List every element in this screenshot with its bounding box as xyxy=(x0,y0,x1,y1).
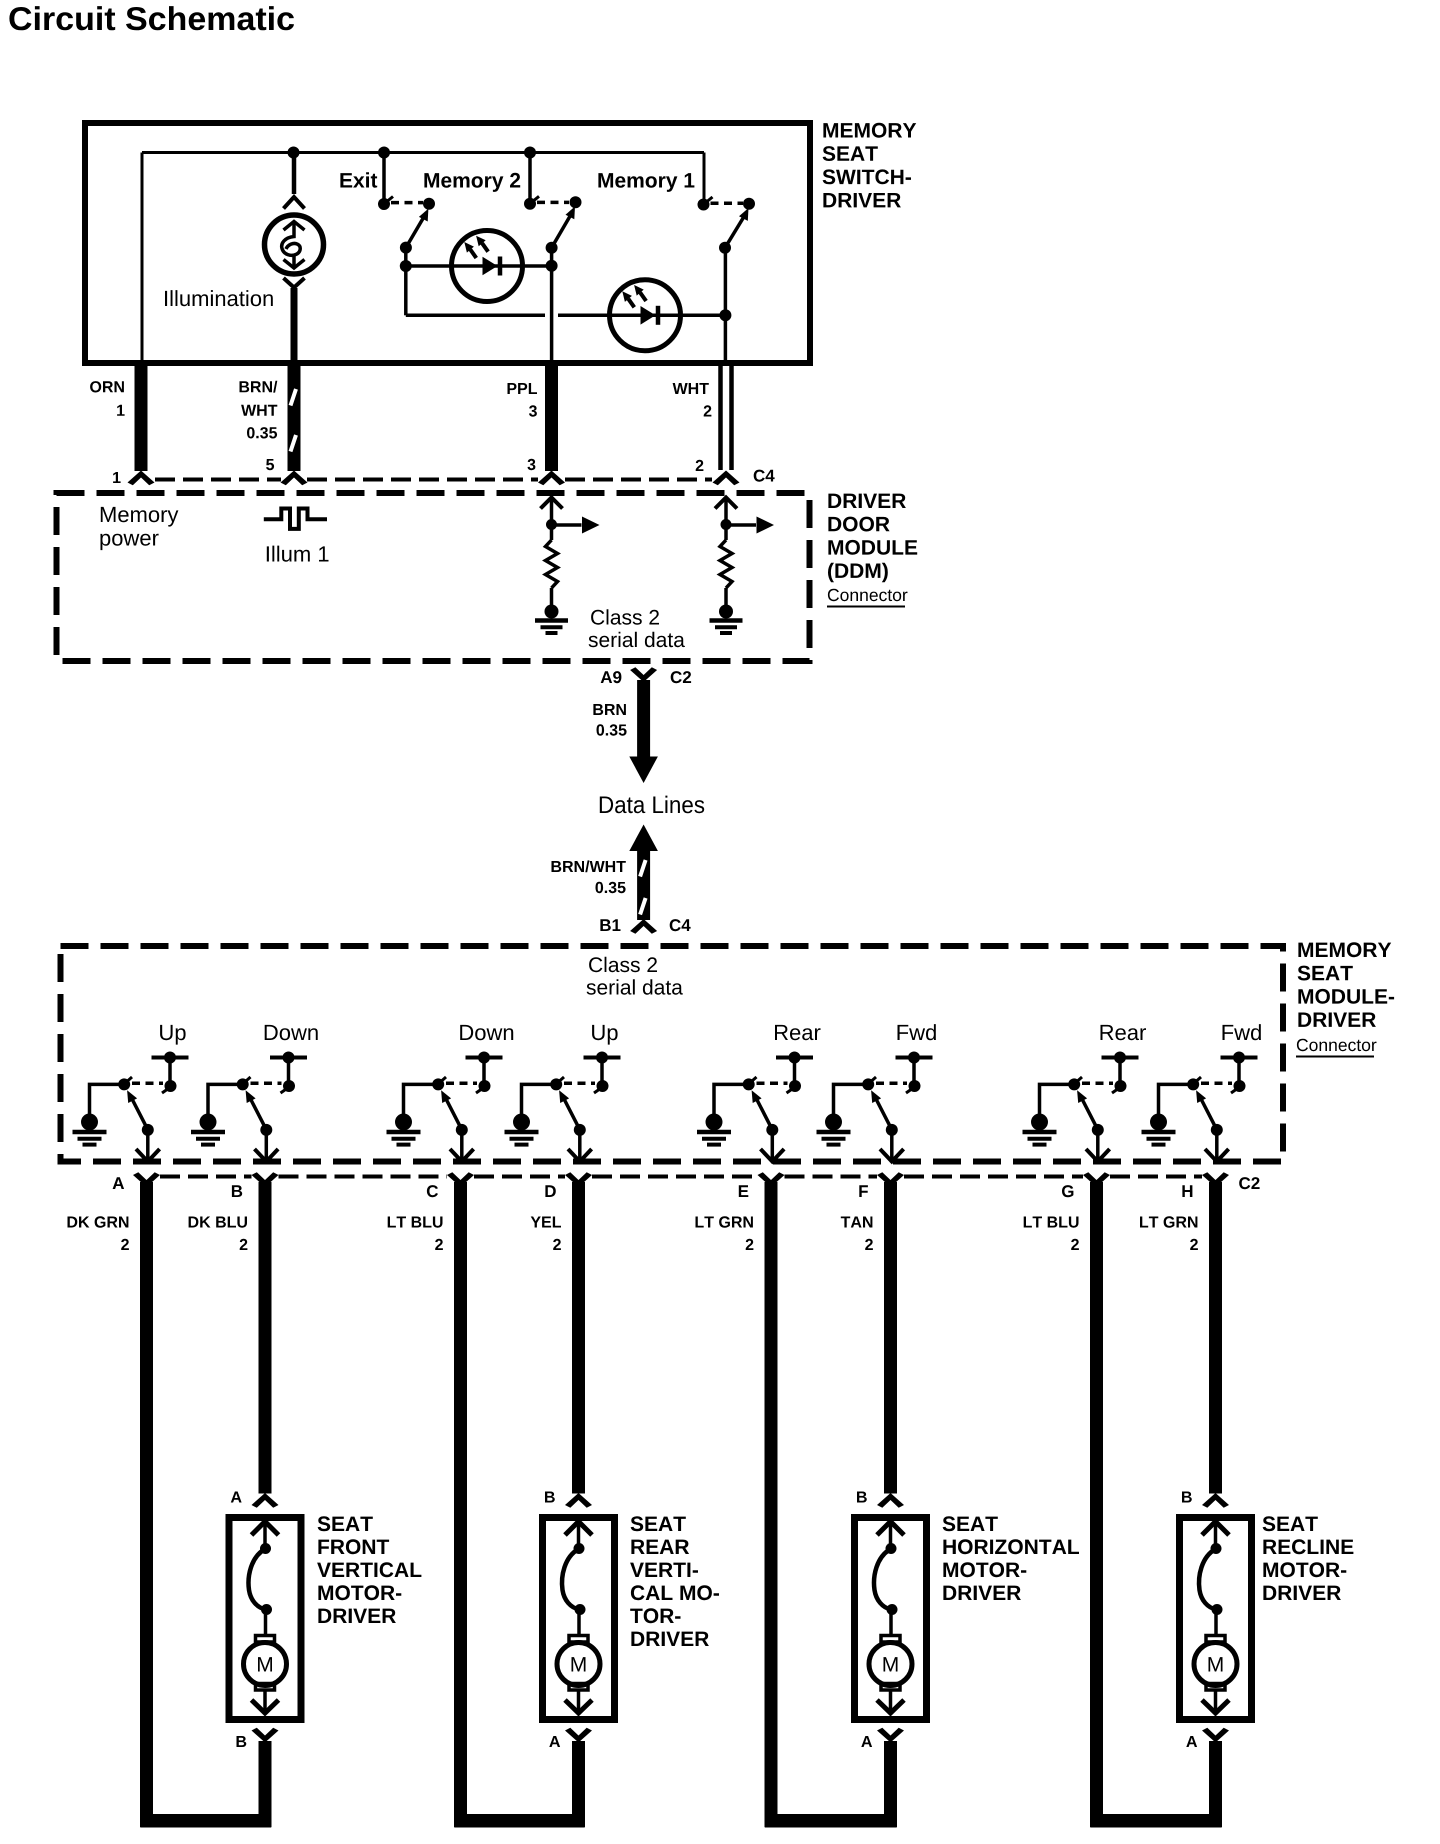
node Exit fixed contact xyxy=(423,198,435,210)
wire BRN 0.35 down xyxy=(637,680,650,757)
wire led2 row right xyxy=(558,314,725,318)
label Class 2 serial data (DDM) xyxy=(591,609,659,624)
label C2 xyxy=(671,671,691,683)
wire left vertical (pin1 feed) xyxy=(141,153,144,364)
label DK GRN 2 xyxy=(68,1216,129,1227)
connector B1/C4 chevron xyxy=(630,919,657,934)
label motor 3 bottom pin A xyxy=(861,1736,872,1747)
MSM switch Fwd (pin at x=890.5) xyxy=(817,1024,936,1161)
wire led1 junction down xyxy=(404,266,408,315)
pin 2 wire WHT (double line) xyxy=(718,364,723,470)
motor 1 top pin chevron xyxy=(252,1493,279,1508)
pin number 2 xyxy=(696,460,704,471)
label ORN 1 xyxy=(90,381,124,392)
motor M3 internals xyxy=(869,1522,912,1714)
wire MSM pin A loop to motor bottom xyxy=(140,1182,153,1827)
Memory2 blade xyxy=(552,211,573,248)
motor M4 internals xyxy=(1194,1522,1237,1714)
node Memory2 fixed contact xyxy=(570,196,582,208)
Illum 1 pulse symbol xyxy=(264,509,327,529)
label motor 2 top pin B xyxy=(545,1492,555,1503)
MSM switch Down (pin at x=265) xyxy=(191,1025,318,1162)
motor M3 box xyxy=(855,1518,927,1720)
label Memory 1 xyxy=(598,173,694,192)
node rail-exit junction xyxy=(378,147,390,159)
label Class 2 serial data (MSM) xyxy=(589,957,657,972)
lamp L1 Illumination circle xyxy=(265,215,324,274)
pin number 1 xyxy=(113,472,121,483)
title Circuit Schematic xyxy=(9,6,294,30)
connector row dashed line C2 xyxy=(160,1175,1202,1179)
LED D1 memory2 indicator xyxy=(452,231,523,302)
node Exit blade contact xyxy=(400,242,412,254)
node Memory1 blade contact xyxy=(719,242,731,254)
label C4 (MSM) xyxy=(670,919,691,931)
motor M2 internals xyxy=(557,1522,600,1714)
label LT GRN 2 xyxy=(696,1216,753,1227)
label LT BLU 2 xyxy=(1024,1217,1079,1228)
MSM switch Up (pin at x=146.5) xyxy=(73,1025,189,1162)
node rail-memory2 junction xyxy=(524,147,536,159)
motor 3 top pin chevron xyxy=(877,1493,904,1508)
switch Exit stem xyxy=(382,153,386,204)
wire memory1 contact down to pin2 xyxy=(724,248,728,363)
MSM switch Down (pin at x=460.5) xyxy=(387,1025,514,1162)
wire MSM pin D to motor top xyxy=(572,1182,585,1494)
label DK BLU 2 xyxy=(189,1217,247,1228)
wire top rail xyxy=(142,151,704,154)
wire memory2 contact down to pin3 xyxy=(550,248,554,363)
motor M1 box xyxy=(229,1518,301,1720)
label MEMORY SEAT SWITCH-DRIVER xyxy=(823,123,917,208)
lamp filament xyxy=(282,222,305,269)
label motor 2 bottom pin A xyxy=(549,1736,560,1747)
MSM pin C chevron xyxy=(447,1172,474,1187)
wire BRN/WHT 0.35 up arrow xyxy=(629,825,658,852)
pin 3 connector chevron xyxy=(538,471,565,486)
label Illumination xyxy=(165,290,273,306)
MSM switch Fwd (pin at x=1215.5) xyxy=(1142,1024,1261,1161)
label PPL 3 xyxy=(508,383,538,394)
MSM switch Up (pin at x=578.5) xyxy=(505,1025,621,1162)
wire led1 row xyxy=(406,264,552,268)
Memory1 mechanical link xyxy=(711,201,744,205)
node led2 right junction xyxy=(719,309,731,321)
driver door module (DDM) box xyxy=(57,493,810,661)
label DRIVER DOOR MODULE (DDM) xyxy=(828,494,917,583)
wire MSM pin H to motor top xyxy=(1209,1182,1222,1494)
label Exit xyxy=(340,172,377,187)
label pin E xyxy=(739,1185,749,1197)
pin number 5 xyxy=(266,459,274,470)
label BRN/WHT 0.35 xyxy=(552,860,626,872)
label motor M2 name xyxy=(630,1516,719,1646)
label Illum 1 xyxy=(267,546,329,562)
lamp bottom lead xyxy=(291,288,298,363)
pin 1 wire ORN xyxy=(135,364,148,471)
DDM pin2 input circuit xyxy=(710,498,775,634)
node Memory2 common xyxy=(524,198,536,210)
MSM switch Rear (pin at x=771) xyxy=(697,1025,821,1162)
Memory2 mechanical link xyxy=(537,201,569,205)
label motor 4 bottom pin A xyxy=(1186,1736,1197,1747)
label Connector (DDM) xyxy=(828,589,908,601)
label pin G xyxy=(1062,1185,1073,1197)
label LT BLU 2 xyxy=(388,1217,443,1228)
label pin B xyxy=(232,1185,242,1197)
pin 5 wire BRN/WHT xyxy=(288,364,301,471)
label pin D xyxy=(545,1185,555,1197)
pin 5 connector chevron xyxy=(281,471,308,486)
motor 4 top pin chevron xyxy=(1202,1493,1229,1508)
LED D2 memory1 indicator xyxy=(610,280,681,351)
wire exit contact to led row xyxy=(404,248,408,266)
label motor 4 top pin B xyxy=(1182,1492,1192,1503)
MSM pin E chevron xyxy=(758,1172,785,1187)
wire MSM pin G loop to motor bottom xyxy=(1090,1182,1103,1827)
label Data Lines xyxy=(600,796,704,814)
node Memory2 blade contact xyxy=(546,242,558,254)
motor 3 bottom pin chevron xyxy=(877,1728,904,1743)
label motor M1 name xyxy=(317,1516,421,1623)
node led1 left junction xyxy=(400,260,412,272)
label C2 (MSM pins) xyxy=(1239,1177,1259,1189)
label Memory 2 xyxy=(424,173,520,192)
label Memory power xyxy=(101,507,179,527)
pin number 3 xyxy=(528,459,536,470)
wire MSM pin B to motor top xyxy=(259,1182,272,1494)
lamp bottom chevron xyxy=(284,278,305,288)
pin 1 connector chevron xyxy=(128,471,155,486)
label C4 xyxy=(754,470,775,482)
motor 1 bottom pin chevron xyxy=(252,1728,279,1743)
label BRN/WHT 0.35 xyxy=(240,381,278,393)
label pin F xyxy=(859,1185,868,1197)
label motor 1 top pin A xyxy=(231,1492,242,1503)
label B1 xyxy=(600,919,620,931)
label pin C xyxy=(427,1185,438,1197)
MSM pin B chevron xyxy=(252,1172,279,1187)
connector row dashed line C4 xyxy=(155,478,712,482)
lamp top chevron xyxy=(284,197,305,209)
motor 2 bottom pin chevron xyxy=(565,1728,592,1743)
switch Memory 2 stem xyxy=(528,153,532,204)
label motor M3 name xyxy=(943,1516,1079,1600)
label Connector (MSM) xyxy=(1297,1039,1377,1051)
motor 2 top pin chevron xyxy=(565,1493,592,1508)
motor M1 internals xyxy=(244,1522,287,1714)
pin 2 connector chevron xyxy=(713,471,740,486)
wire led2 row left xyxy=(406,314,545,318)
lamp top lead xyxy=(292,153,297,195)
switch Memory 1 stem xyxy=(703,153,706,205)
MSM pin A chevron xyxy=(133,1172,160,1187)
Exit mechanical link xyxy=(391,201,423,205)
node Exit common xyxy=(378,198,390,210)
motor M4 box xyxy=(1180,1518,1252,1720)
label YEL 2 xyxy=(531,1217,561,1228)
pin 3 wire PPL xyxy=(545,364,558,471)
Exit blade xyxy=(406,213,427,248)
label BRN 0.35 xyxy=(593,704,626,715)
label motor M4 name xyxy=(1263,1516,1354,1600)
node led1 right junction xyxy=(546,260,558,272)
motor 4 bottom pin chevron xyxy=(1202,1728,1229,1743)
connector A9/C2 chevron xyxy=(630,667,657,682)
label motor 3 top pin B xyxy=(857,1492,867,1503)
label WHT 2 xyxy=(673,383,709,394)
wire MSM pin C loop to motor bottom xyxy=(454,1182,467,1827)
node Memory1 fixed contact xyxy=(743,198,755,210)
motor M2 box xyxy=(543,1518,615,1720)
DDM pin3 input circuit xyxy=(535,498,600,634)
label LT GRN 2 xyxy=(1140,1216,1197,1227)
node Memory1 common xyxy=(698,199,710,211)
MSM pin G chevron xyxy=(1083,1172,1110,1187)
label TAN 2 xyxy=(841,1217,873,1228)
label pin A xyxy=(113,1177,125,1189)
MSM pin H chevron xyxy=(1202,1172,1229,1187)
wire MSM pin E loop to motor bottom xyxy=(765,1182,778,1827)
label pin H xyxy=(1182,1185,1192,1197)
MSM switch Rear (pin at x=1096.5) xyxy=(1023,1025,1147,1162)
node rail-lamp junction xyxy=(288,147,300,159)
memory seat switch-driver box xyxy=(85,123,810,363)
Memory1 blade xyxy=(725,213,747,248)
MSM pin F chevron xyxy=(877,1172,904,1187)
label A9 xyxy=(601,671,622,683)
MSM pin D chevron xyxy=(565,1172,592,1187)
memory seat module-driver box xyxy=(61,946,1284,1162)
label MEMORY SEAT MODULE-DRIVER xyxy=(1298,942,1395,1027)
label motor 1 bottom pin B xyxy=(237,1736,247,1747)
wire MSM pin F to motor top xyxy=(884,1182,897,1494)
